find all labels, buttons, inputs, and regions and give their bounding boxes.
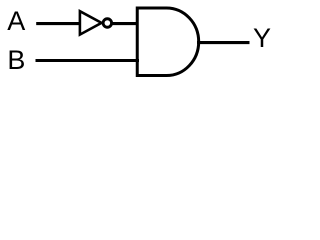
wire xyxy=(112,22,139,25)
inverter U1 (NOT gate) xyxy=(80,11,112,34)
wire xyxy=(197,41,250,44)
AND gate U2 xyxy=(137,8,198,76)
wire xyxy=(36,59,140,62)
svg-text:A: A xyxy=(7,6,25,36)
wire xyxy=(36,22,81,25)
svg-text:Y: Y xyxy=(253,23,271,53)
svg-text:B: B xyxy=(7,45,25,75)
